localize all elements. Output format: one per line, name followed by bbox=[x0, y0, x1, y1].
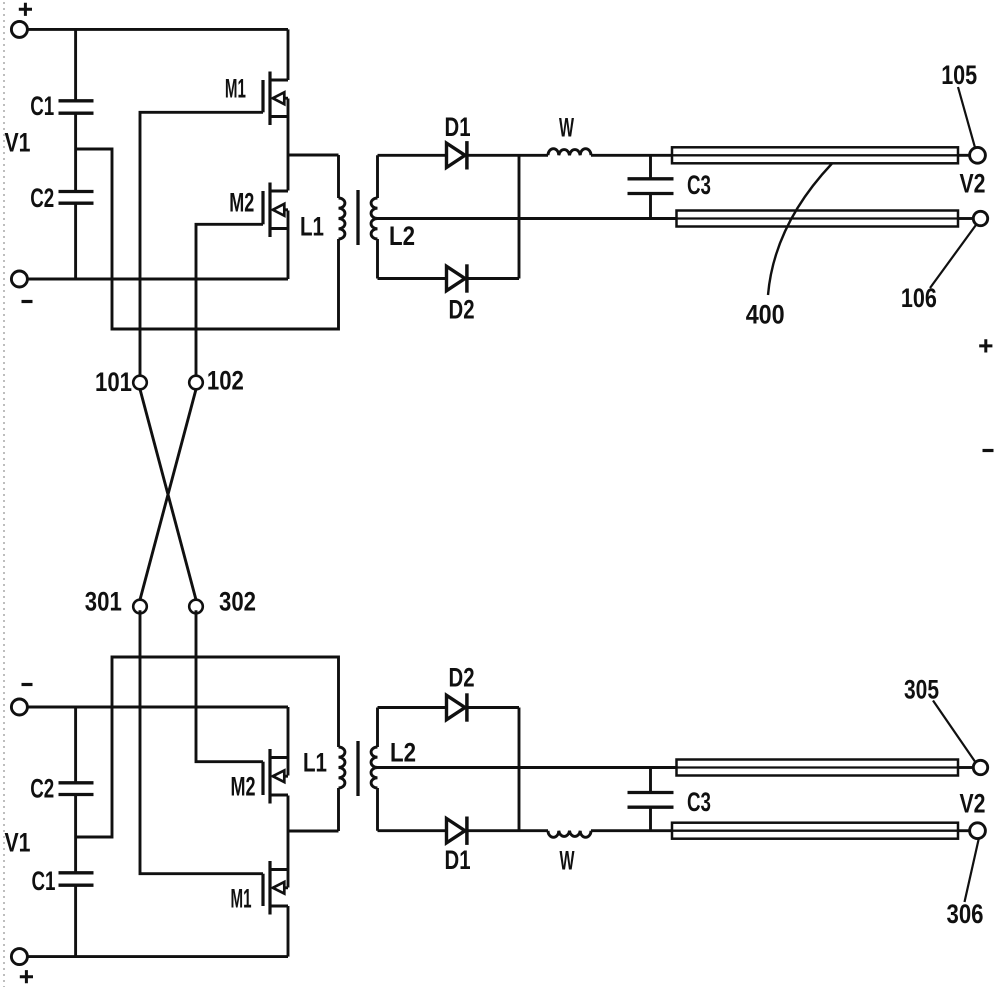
wire bottom positive rail bottom module bbox=[27, 955, 288, 958]
svg-text:400: 400 bbox=[746, 300, 785, 330]
node terminal 306 bbox=[970, 823, 986, 839]
transistor M1 top module source lead bbox=[270, 115, 288, 118]
wire L2 center tap to lamp bottom module bbox=[378, 766, 677, 769]
wire diode junction vertical top module bbox=[518, 155, 521, 278]
svg-text:M2: M2 bbox=[229, 188, 254, 218]
svg-text:D1: D1 bbox=[445, 112, 471, 142]
svg-text:105: 105 bbox=[941, 60, 977, 90]
node 302 bbox=[189, 600, 203, 614]
wire D1 cathode to junction and W bbox=[467, 154, 548, 157]
inductor W bottom module bbox=[548, 831, 591, 838]
svg-text:M1: M1 bbox=[231, 883, 252, 913]
transistor M1 bottom module source lead bbox=[270, 868, 288, 871]
wire C3 upper stub bbox=[649, 155, 652, 179]
minus sign at V1 top bottom terminal bbox=[22, 300, 33, 303]
transistor M1 bottom module drain lead bbox=[270, 905, 288, 908]
transformer core top module bbox=[356, 190, 359, 245]
svg-text:101: 101 bbox=[95, 367, 132, 397]
svg-text:C2: C2 bbox=[30, 183, 54, 213]
wire C1 to C2 bbox=[74, 113, 77, 191]
svg-text:102: 102 bbox=[207, 366, 244, 396]
svg-text:D1: D1 bbox=[445, 845, 471, 875]
node terminal 105 bbox=[970, 147, 986, 163]
diode D1 top module bbox=[447, 143, 466, 167]
inductor W top module bbox=[548, 149, 591, 156]
wire M2 to rail bottom module bbox=[287, 707, 290, 776]
transistor M2 bottom module body lead bbox=[273, 775, 288, 778]
transformer core bottom module bbox=[356, 741, 359, 796]
capacitor C2 bbox=[59, 192, 94, 204]
transistor M2 top module body lead bbox=[273, 208, 288, 211]
transistor M1 top module body arrow bbox=[273, 92, 285, 104]
svg-text:W: W bbox=[560, 845, 575, 875]
svg-text:305: 305 bbox=[904, 674, 939, 704]
terminal - of V1 bottom module bbox=[11, 949, 27, 965]
plus sign V2 right side bbox=[979, 339, 992, 352]
inductor L1 transformer primary top module bbox=[339, 155, 345, 239]
scan edge artifact bbox=[3, 2, 5, 987]
lamp 400 lower tube top module bbox=[677, 211, 959, 227]
diode D2 bottom module bbox=[447, 695, 466, 719]
lamp lower tube bottom module bbox=[672, 823, 958, 839]
wire M2 gate to node 302 bbox=[196, 610, 263, 761]
node 102 bbox=[189, 376, 203, 390]
wire C3 stub b bottom module bbox=[649, 768, 652, 793]
svg-text:M1: M1 bbox=[225, 74, 246, 104]
wire diode junction vertical bottom module bbox=[518, 708, 521, 831]
inductor L1 transformer primary bottom module bbox=[339, 747, 345, 831]
svg-text:V1: V1 bbox=[5, 127, 31, 157]
wire W to lamp top module bbox=[591, 154, 672, 157]
wire upper lamp to terminal 105 bbox=[958, 154, 970, 157]
wire C1 to C2 bottom module bbox=[74, 795, 77, 873]
capacitor C2 bottom module bbox=[59, 783, 94, 795]
wire M1 drain to rail bbox=[287, 29, 290, 80]
svg-text:C3: C3 bbox=[687, 787, 711, 817]
diode D1 bottom module bbox=[447, 819, 466, 843]
svg-text:L2: L2 bbox=[389, 221, 415, 251]
wire M1 gate to node 101 bbox=[140, 112, 263, 375]
wire D2 cathode to junction bbox=[467, 277, 519, 280]
svg-text:L1: L1 bbox=[303, 747, 327, 777]
minus sign at V1 bottom module bbox=[22, 683, 33, 686]
svg-text:D2: D2 bbox=[449, 294, 475, 324]
node terminal 305 bbox=[973, 760, 987, 774]
wire M1 drain to M2 source bottom module bbox=[287, 796, 290, 888]
wire lamp to terminal 306 bbox=[958, 829, 970, 832]
diode D2 top module bbox=[447, 266, 466, 290]
svg-text:D2: D2 bbox=[449, 662, 475, 692]
inductor L2 transformer secondary bottom module bbox=[371, 708, 377, 831]
transistor M2 bottom module source lead bbox=[270, 756, 288, 759]
wire L2 top to D1 anode bbox=[378, 154, 447, 157]
wire capacitor midpoint to transformer return bottom module bbox=[76, 657, 339, 837]
wire lower lamp to terminal 106 bbox=[958, 217, 974, 220]
capacitor C3 top module bbox=[628, 179, 674, 194]
wire C2 to rail bottom module bbox=[74, 707, 77, 783]
svg-text:C1: C1 bbox=[32, 866, 56, 896]
svg-text:C1: C1 bbox=[30, 91, 54, 121]
wire top positive rail bbox=[27, 28, 288, 31]
node 101 bbox=[133, 376, 147, 390]
wire M1 gate to node 301 bbox=[140, 610, 263, 873]
wire D2 cathode to junction bottom module bbox=[467, 706, 519, 709]
svg-text:C2: C2 bbox=[30, 774, 54, 804]
svg-text:L2: L2 bbox=[390, 737, 416, 767]
transistor M2 bottom module drain lead bbox=[270, 794, 288, 797]
wire negative rail bottom module bbox=[27, 706, 288, 709]
transistor M1 bottom module gate bar bbox=[261, 874, 264, 906]
transistor M1 bottom module body lead bbox=[273, 886, 288, 889]
transistor M2 top module source lead bbox=[270, 227, 288, 230]
svg-text:306: 306 bbox=[947, 899, 984, 929]
leader line 106 bbox=[930, 225, 976, 289]
transistor M2 top module gate bar bbox=[261, 191, 264, 224]
svg-text:302: 302 bbox=[219, 586, 256, 616]
transistor M2 top module body arrow bbox=[273, 204, 285, 216]
wire node 101 to node 302 bbox=[140, 389, 196, 599]
terminal - top of V1 bottom module bbox=[11, 699, 27, 715]
svg-text:L1: L1 bbox=[300, 211, 324, 241]
capacitor C1 bottom module bbox=[59, 873, 94, 885]
wire M2 source to bottom rail bbox=[287, 211, 290, 280]
wire L2 bottom to D2 anode bbox=[378, 277, 447, 280]
leader line 305 bbox=[933, 701, 975, 763]
wire bottom negative rail bbox=[27, 278, 288, 281]
plus sign at V1 bottom terminal bbox=[20, 970, 33, 983]
transistor M1 top module body lead bbox=[273, 97, 288, 100]
wire C3 lower stub bbox=[649, 194, 652, 219]
wire M1 drain to rail bottom module bbox=[287, 906, 290, 957]
transistor M1 top module gate bar bbox=[261, 80, 264, 112]
minus sign V2 right side bbox=[983, 449, 994, 452]
wire half-bridge midpoint to L1 bbox=[288, 154, 339, 157]
wire D1 cathode to junction and W bottom module bbox=[467, 829, 548, 832]
transistor M2 top module drain lead bbox=[270, 190, 288, 193]
capacitor C1 bbox=[59, 101, 94, 113]
leader line 105 bbox=[958, 87, 975, 148]
wire capacitor midpoint to transformer return bbox=[76, 149, 339, 329]
transistor M1 top module channel bbox=[268, 72, 271, 126]
terminal + of V1 top module bbox=[11, 21, 27, 37]
node 301 bbox=[133, 600, 147, 614]
wire C3 stub a bottom module bbox=[649, 807, 652, 831]
lamp upper tube bottom module bbox=[677, 760, 959, 776]
transistor M2 bottom module channel bbox=[268, 749, 271, 804]
transistor M2 bottom module body arrow bbox=[273, 770, 285, 782]
transistor M1 top module drain lead bbox=[270, 79, 288, 82]
wire M2 gate to node 102 bbox=[196, 224, 263, 375]
wire lamp to terminal 305 bbox=[958, 766, 974, 769]
svg-text:301: 301 bbox=[85, 586, 122, 616]
svg-text:V2: V2 bbox=[960, 168, 986, 198]
wire rail to C1 bbox=[74, 29, 77, 100]
transistor M1 bottom module channel bbox=[268, 861, 271, 915]
lamp 400 upper tube top module bbox=[672, 147, 958, 163]
node terminal 106 bbox=[973, 211, 987, 225]
leader curve 400 bbox=[768, 164, 832, 296]
wire half-bridge midpoint to L1 bottom module bbox=[288, 830, 339, 833]
transistor M2 top module channel bbox=[268, 183, 271, 238]
svg-text:V2: V2 bbox=[960, 788, 986, 818]
wire M1 source to M2 drain bbox=[287, 99, 290, 191]
inductor L2 transformer secondary top module bbox=[371, 155, 377, 278]
wire L2 to D2 anode bottom module bbox=[378, 706, 447, 709]
transistor M1 bottom module body arrow bbox=[273, 882, 285, 894]
svg-text:M2: M2 bbox=[231, 772, 256, 802]
leader line 306 bbox=[965, 839, 979, 903]
wire rail to C1 bottom module bbox=[74, 885, 77, 956]
wire W to lamp bottom module bbox=[591, 829, 672, 832]
wire L2 center tap to lower lamp bbox=[378, 217, 677, 220]
wire L2 to D1 anode bottom module bbox=[378, 829, 447, 832]
wire C2 to bottom rail bbox=[74, 203, 77, 279]
capacitor C3 bottom module bbox=[628, 793, 674, 808]
svg-text:V1: V1 bbox=[5, 827, 31, 857]
svg-text:W: W bbox=[559, 112, 574, 142]
wire node 102 to node 301 bbox=[140, 389, 196, 599]
terminal - of V1 top module bbox=[11, 271, 27, 287]
transistor M2 bottom module gate bar bbox=[261, 762, 264, 795]
svg-text:C3: C3 bbox=[687, 170, 711, 200]
plus sign at V1 top terminal bbox=[19, 3, 32, 16]
